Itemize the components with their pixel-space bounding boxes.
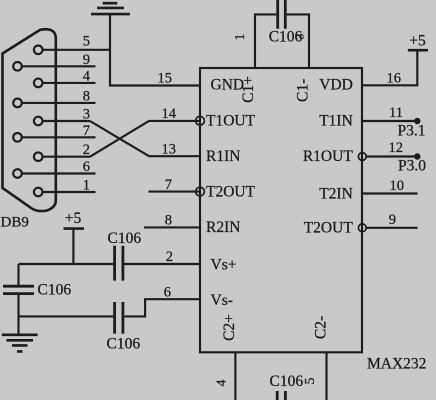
- wire ground stem to GND pin15: [110, 14, 200, 85]
- svg-text:1: 1: [83, 178, 90, 194]
- wire DB9 pin 2 to crossover: [43, 156, 91, 158]
- svg-text:C106: C106: [107, 336, 141, 353]
- wire DB9 pin 3 to crossover: [43, 120, 91, 122]
- wire Vs+ rail to pin2: [124, 263, 200, 265]
- op circle T2OUT pin9: [358, 224, 366, 232]
- svg-text:Vs-: Vs-: [211, 292, 233, 309]
- wire Vs- rail left: [19, 315, 114, 317]
- svg-text:C106: C106: [38, 282, 72, 299]
- wire crossover pin3 to R1IN: [90, 121, 200, 156]
- svg-text:5: 5: [83, 34, 90, 50]
- svg-text:8: 8: [83, 89, 90, 105]
- svg-text:9: 9: [389, 212, 396, 228]
- ground bottom-left: [2, 335, 38, 352]
- wire Vs+ rail left: [19, 263, 114, 265]
- wire DB9 pin 1 stub: [43, 191, 96, 193]
- svg-text:16: 16: [387, 71, 402, 87]
- svg-text:5: 5: [303, 378, 318, 385]
- svg-text:C106: C106: [270, 373, 304, 390]
- DB9 pin 4 circle: [34, 79, 43, 88]
- DB9 pin 5 circle: [34, 46, 43, 55]
- svg-text:C2+: C2+: [221, 314, 238, 341]
- wire DB9 pin 6 stub: [22, 172, 96, 174]
- wire C1+ to top cap: [255, 14, 276, 68]
- svg-text:R1IN: R1IN: [206, 148, 240, 165]
- svg-text:4: 4: [215, 380, 230, 387]
- DB9 pin 1 circle: [34, 188, 43, 197]
- svg-text:+5: +5: [65, 210, 82, 227]
- svg-text:T1IN: T1IN: [319, 112, 353, 129]
- DB9 pin 7 circle: [13, 133, 22, 142]
- svg-text:C106: C106: [108, 230, 142, 247]
- svg-text:7: 7: [83, 123, 90, 139]
- wire DB9 pin 4 stub: [43, 82, 96, 84]
- wire cap to ground: [17, 295, 19, 335]
- wire R1OUT pin12: [366, 155, 415, 157]
- wire T2OUT pin9: [366, 227, 417, 229]
- svg-text:6: 6: [83, 159, 90, 175]
- svg-text:P3.1: P3.1: [398, 123, 426, 140]
- IC box MAX232: [200, 68, 362, 352]
- wire DB9 pin 9 stub: [22, 65, 96, 67]
- wire left vertical to cap: [17, 264, 19, 285]
- capacitor C106 (top) plates: [278, 0, 286, 29]
- svg-text:Vs+: Vs+: [211, 256, 237, 273]
- svg-text:R2IN: R2IN: [206, 219, 240, 236]
- svg-text:10: 10: [390, 178, 405, 194]
- svg-text:C1-: C1-: [295, 79, 312, 102]
- svg-text:12: 12: [389, 140, 404, 156]
- svg-text:T2OUT: T2OUT: [304, 220, 354, 237]
- svg-text:T2OUT: T2OUT: [206, 183, 256, 200]
- DB9 connector outline: [3, 29, 56, 211]
- svg-text:C2-: C2-: [313, 316, 330, 339]
- svg-text:2: 2: [83, 142, 90, 158]
- wire DB9 pin 8 stub: [22, 102, 96, 104]
- op circle T2OUT pin7: [196, 187, 205, 196]
- wire DB9 pin 7 stub: [22, 136, 96, 138]
- svg-text:VDD: VDD: [319, 77, 353, 94]
- ground top (inverted): [91, 3, 130, 14]
- svg-text:4: 4: [83, 69, 91, 85]
- wire top cap to C1-: [287, 14, 309, 68]
- svg-text:7: 7: [165, 177, 172, 193]
- svg-text:15: 15: [158, 71, 173, 87]
- wire T1IN pin11: [362, 120, 415, 122]
- DB9 pin 2 circle: [34, 152, 43, 161]
- wire Vs- rail to pin6: [124, 299, 200, 316]
- svg-text:11: 11: [389, 105, 403, 121]
- wire crossover pin2 to T1OUT: [90, 121, 200, 157]
- node P3.1 dot: [414, 118, 420, 124]
- DB9 pin 3 circle: [34, 117, 43, 126]
- svg-text:MAX232: MAX232: [367, 355, 426, 372]
- wire C2- pin5 down: [325, 352, 327, 400]
- node P3.0 dot: [414, 153, 420, 159]
- svg-text:8: 8: [165, 213, 172, 229]
- svg-text:9: 9: [83, 52, 90, 68]
- capacitor C106 (bottom) plates: [277, 391, 285, 400]
- svg-text:6: 6: [164, 285, 171, 301]
- svg-text:T1OUT: T1OUT: [206, 113, 256, 130]
- wire T2OUT pin7 stub: [149, 191, 201, 193]
- wire C2+ pin4 down: [234, 352, 236, 400]
- wire R2IN pin8 stub: [144, 226, 200, 228]
- svg-text:2: 2: [166, 249, 173, 265]
- svg-text:C106: C106: [269, 29, 303, 46]
- wire T2IN pin10: [362, 192, 418, 194]
- svg-text:3: 3: [83, 107, 90, 123]
- capacitor C106 (Vs+) plates: [115, 246, 123, 281]
- svg-text:P3.0: P3.0: [398, 158, 426, 175]
- DB9 pin 6 circle: [13, 169, 22, 178]
- svg-text:R1OUT: R1OUT: [303, 148, 353, 165]
- DB9 pin 9 circle: [13, 62, 22, 71]
- wire +5 stem: [72, 229, 74, 264]
- DB9 pin 8 circle: [13, 99, 22, 108]
- svg-text:T2IN: T2IN: [319, 186, 353, 203]
- capacitor C106 (Vs-) plates: [115, 302, 123, 334]
- op circle T1OUT pin14: [196, 116, 205, 125]
- svg-text:DB9: DB9: [1, 215, 29, 231]
- wire +5 to VDD pin16: [362, 50, 417, 85]
- svg-text:C1+: C1+: [240, 76, 257, 103]
- svg-text:14: 14: [162, 106, 177, 122]
- capacitor C106 (left, to ground) plates: [3, 286, 34, 293]
- op circle R1OUT pin12: [358, 153, 366, 161]
- wire DB9 pin 5: [43, 49, 111, 51]
- svg-text:1: 1: [233, 34, 248, 41]
- power +5 left: [64, 227, 85, 230]
- svg-text:+5: +5: [409, 33, 426, 50]
- power +5 right: [408, 49, 428, 52]
- svg-text:13: 13: [162, 142, 177, 158]
